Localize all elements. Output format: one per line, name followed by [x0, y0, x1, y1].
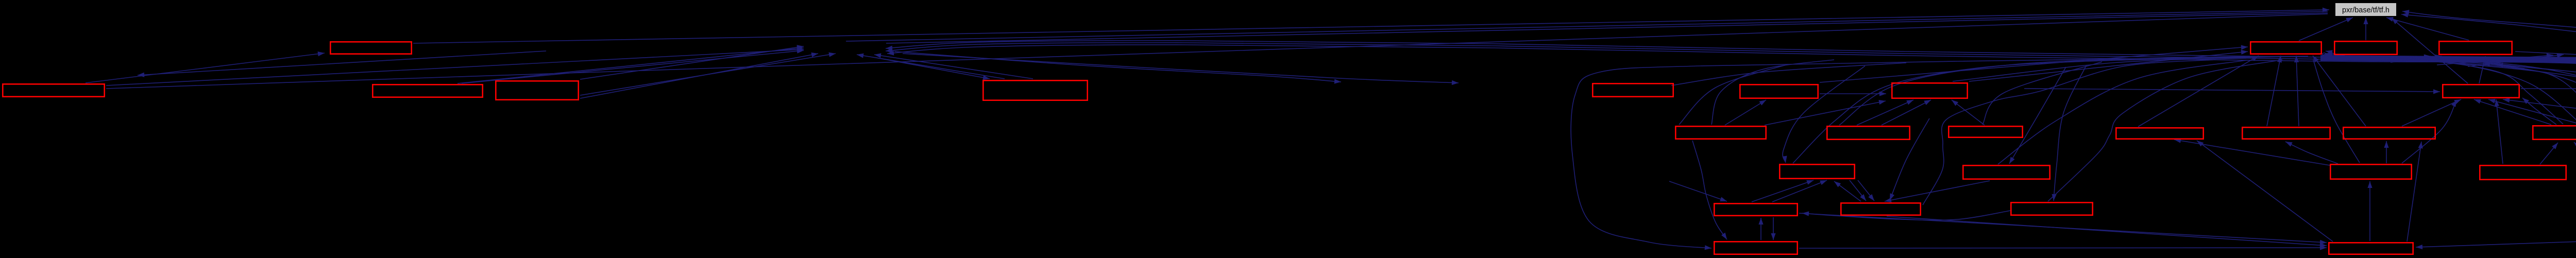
edge b26 to band [2313, 60, 2360, 163]
node b2 [330, 42, 411, 54]
edge bB to b12 [2267, 56, 2282, 126]
edge B to invisC [894, 51, 1341, 84]
edge b34 to B [887, 45, 2576, 163]
node b18 [1780, 164, 1854, 178]
band core [2320, 55, 2576, 64]
edge b15 to b14 [2479, 56, 2486, 83]
edge b25 to hub [2048, 60, 2282, 201]
node b14 [2439, 41, 2512, 54]
edge b10 to hub [1839, 56, 2308, 125]
edge b14 to tfh [2386, 17, 2469, 40]
edge B to invisD [903, 54, 1459, 85]
edge band to b8 b [1679, 64, 1788, 125]
edge b3 to invisA [457, 46, 804, 83]
edge b19 to b18 a [1752, 180, 1814, 202]
node b1 [3, 84, 104, 96]
edge right curve to tfh [2401, 13, 2576, 47]
edge right to b15 [2522, 98, 2556, 125]
node bD [2533, 126, 2576, 139]
edge b27 to bD [2540, 143, 2558, 164]
edge b24 to b18 [1834, 181, 1861, 201]
edge b1 to tfh [106, 14, 2328, 89]
edge band to b14 arrow [2370, 55, 2431, 62]
edge b20 to b19 up [1758, 218, 1763, 240]
edge b19 to b18 b [1772, 180, 1827, 202]
edge band down to b18 [1783, 66, 1866, 163]
node b21 [2116, 128, 2203, 139]
edge b8 to b9 diag [1765, 100, 1886, 125]
edge b5 to invisB bottom1 [857, 54, 1005, 79]
edge band to invisF1 [2515, 51, 2576, 87]
edge b18 to b24 a [1850, 180, 1866, 201]
edge b15 to b16 [2521, 87, 2576, 92]
edge b30 to b12 [2324, 54, 2576, 166]
edge b19 to b28 [1799, 213, 2327, 245]
edge band down to b24 [1890, 118, 1929, 200]
edge b8 down to b20 [1692, 141, 1727, 239]
node b6 [1592, 83, 1673, 96]
edge b19 to b20 dn [1771, 217, 1775, 240]
edge b5 to invisB bottom2 [874, 53, 1033, 79]
edge C1 loop to b20 [1571, 57, 2293, 250]
edge bC to b12 [2313, 56, 2366, 126]
edge b17 to b12 [2326, 52, 2576, 123]
edge b4b to invisA bottom [580, 53, 836, 95]
node b8 [1675, 126, 1766, 139]
node b5 [983, 80, 1087, 100]
edge b31 to b12 [2322, 53, 2576, 166]
node b25 [2011, 202, 2092, 215]
node bC [2343, 127, 2435, 139]
edge big right loop to b28 [2416, 59, 2576, 249]
edge b2 to tfh [413, 8, 2329, 43]
edge b6 to band [1671, 63, 1906, 85]
edge b9 to b12 [1969, 50, 2248, 81]
edge b26 to b21 [2174, 139, 2330, 165]
edge long to invisE [138, 51, 546, 77]
edge invisB to tfh [886, 13, 2328, 43]
node bB [2242, 127, 2330, 139]
node b23 [1963, 165, 2049, 179]
node b4 [496, 81, 578, 99]
node b20 [1714, 242, 1797, 254]
edge b9 to band [1953, 58, 2246, 81]
edge bE to b15 [2503, 98, 2576, 125]
edge b26 to bB [2285, 142, 2338, 164]
edge b21 to b12 [2138, 56, 2259, 127]
node b10 [1827, 126, 1909, 139]
edge to invisG 1 [2437, 54, 2553, 65]
edge b24 to hub [1923, 60, 2215, 205]
edge band to b14 arrow2 [2391, 55, 2442, 62]
edge b27 to b15 [2495, 99, 2503, 164]
edge b3b to invisA [462, 49, 804, 83]
node b7 [1740, 84, 1818, 98]
edge bE to B [886, 41, 2576, 124]
node b9 [1892, 83, 1967, 98]
edge b13 to tfh [2363, 18, 2368, 40]
edge b28 to bC [2407, 142, 2423, 242]
node pxr/base/tf/tf.h (root) [2335, 3, 2396, 16]
edge b11 to b9 [1952, 100, 1985, 125]
node b13 [2334, 41, 2397, 54]
edge b28 to b26 up [2367, 181, 2372, 241]
node b28 [2329, 243, 2413, 254]
node b27 [2480, 165, 2566, 179]
edge b11 to b15 left [2024, 89, 2440, 94]
edge b12 to tfh [2299, 18, 2353, 41]
edge band down to b23 [2009, 67, 2066, 164]
edge b33 to band [2488, 62, 2576, 201]
node b19 [1714, 203, 1797, 215]
edge diag to b19 topleft [1669, 181, 1727, 201]
node b26 [2330, 164, 2411, 179]
edge band to b8 [1711, 60, 1834, 125]
edge b1 to invisA [106, 47, 804, 85]
node b11 [1948, 126, 2022, 137]
edge b26 to b15 [2402, 100, 2456, 163]
edge b10 to b9 v2 [1882, 100, 1931, 125]
edge b1 to b2 [86, 51, 325, 83]
edge band down to b25 [2052, 65, 2087, 201]
edge b23 to b24 [1885, 181, 1990, 202]
svg-text:pxr/base/tf/tf.h: pxr/base/tf/tf.h [2342, 6, 2389, 14]
edge right curve to tfh 2 [2402, 10, 2576, 56]
edge B to b5 top [876, 58, 990, 80]
edge bC to b15 [2402, 99, 2461, 126]
edge b24 to b28 [1887, 216, 2327, 248]
edge b4 to invisA [580, 45, 804, 79]
edge b18 to b24 b [1858, 180, 1874, 201]
edge bD to b15a [2474, 99, 2551, 125]
edge bD to b15b [2488, 99, 2576, 125]
edge b7 to b9 [1820, 91, 1886, 96]
edge band to b11 [1982, 62, 2102, 125]
edge b7 to b12 [1820, 45, 2248, 83]
edge b32 to B [886, 43, 2576, 166]
edge b20 to b28 [1799, 245, 2327, 250]
edge b18 to hub [1793, 57, 2246, 163]
edge b26 to bC [2384, 141, 2388, 163]
edge bB2 to b12 [2294, 56, 2299, 126]
edge b23 to hub [1998, 60, 2246, 164]
edge bD2 to band [2370, 57, 2576, 124]
edge bD to b12 [2326, 50, 2563, 124]
edge b4 to invisA bottom [580, 53, 818, 98]
edge b30 to bD [2574, 142, 2576, 166]
edge into band arr2 [2496, 63, 2555, 70]
edge b25 to b19 [1802, 211, 2010, 220]
node b3 [372, 84, 482, 97]
node b15 [2443, 84, 2519, 97]
edge b10 to b9 v1 [1857, 100, 1913, 125]
edge b8 to b7 [1725, 100, 1766, 125]
edge into band arr1 [2483, 62, 2524, 68]
node b24 [1841, 203, 1920, 215]
edge to invisG 2 [2468, 53, 2564, 66]
edge invisA to tfh [846, 11, 2328, 41]
edge b28 to b21 [2197, 141, 2333, 242]
edge b15 to tfh [2392, 18, 2468, 83]
node b12 [2250, 42, 2321, 54]
